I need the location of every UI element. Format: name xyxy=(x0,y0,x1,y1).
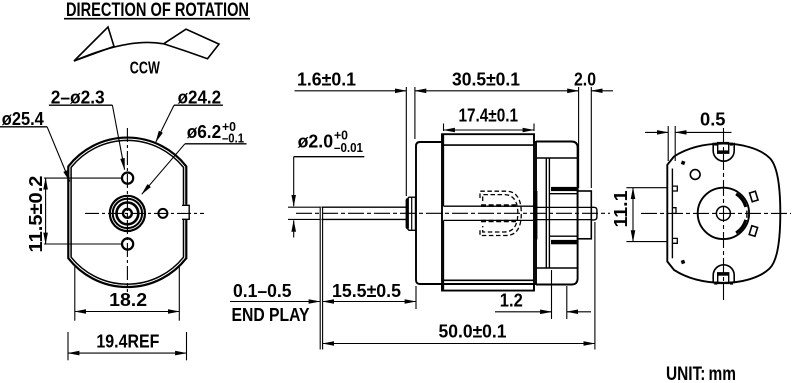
shaft stub xyxy=(591,207,597,220)
side centerline xyxy=(296,212,610,214)
svg-text:50.0±0.1: 50.0±0.1 xyxy=(439,321,507,341)
rear vertical centerline xyxy=(723,128,725,301)
front bearing ring xyxy=(117,203,139,225)
label ø25.4 xyxy=(0,109,70,182)
rear horizontal centerline xyxy=(641,212,791,214)
rear rivet lower-left xyxy=(681,260,686,265)
front view vertical centerline xyxy=(126,128,128,292)
svg-text:CCW: CCW xyxy=(130,57,160,77)
can to cap black joint xyxy=(534,191,538,240)
svg-text:ø25.4: ø25.4 xyxy=(2,109,44,129)
brush block inner lines xyxy=(549,194,577,237)
svg-text:2–ø2.3: 2–ø2.3 xyxy=(51,87,105,107)
commutator arc lower xyxy=(736,220,746,233)
front view inner outline xyxy=(71,140,183,284)
rear inner flat line xyxy=(671,169,673,259)
brush tab lower-right xyxy=(749,226,757,237)
title DIRECTION OF ROTATION xyxy=(64,0,250,21)
label ø2.0 +0 -0.01 xyxy=(294,129,365,238)
svg-text:19.4REF: 19.4REF xyxy=(96,332,159,352)
can tangent lines xyxy=(442,144,534,146)
dimension 18.2 xyxy=(75,267,180,321)
rear shaft hole xyxy=(716,206,730,220)
svg-text:ø24.2: ø24.2 xyxy=(178,87,222,107)
bearing boss xyxy=(406,197,416,230)
svg-text:DIRECTION OF ROTATION: DIRECTION OF ROTATION xyxy=(66,0,249,21)
front view right edge notch xyxy=(182,205,191,220)
front shaft hole xyxy=(123,209,132,218)
svg-text:1.2: 1.2 xyxy=(500,290,523,310)
front pilot hole right xyxy=(158,209,167,218)
end play note 0.1-0.5 END PLAY xyxy=(230,281,320,325)
rear rivet upper-left xyxy=(681,160,686,165)
rear top terminal cup xyxy=(713,143,734,161)
front view outer outline xyxy=(68,138,186,287)
svg-text:1.6±0.1: 1.6±0.1 xyxy=(297,70,356,90)
svg-text:2.0: 2.0 xyxy=(574,70,596,90)
can inner wall lines xyxy=(444,134,535,290)
label ø6.2 +0 -0.1 xyxy=(142,120,247,194)
svg-text:–0.01: –0.01 xyxy=(334,141,363,155)
dimension 15.5±0.5 xyxy=(323,281,416,309)
rear top terminal inner xyxy=(714,143,733,154)
dimension 50.0±0.1 xyxy=(323,222,595,350)
commutator arc upper xyxy=(736,194,746,207)
end cap xyxy=(536,142,578,285)
front mounting hole bottom xyxy=(122,238,133,249)
terminal block xyxy=(578,191,592,239)
front hub ring xyxy=(113,199,142,228)
svg-text:11.1: 11.1 xyxy=(611,191,631,228)
dimension 19.4REF xyxy=(68,332,187,361)
rear flat notches xyxy=(672,186,677,243)
dimension 30.5±0.1 xyxy=(415,70,579,189)
dimension 11.5±0.2 xyxy=(26,176,122,253)
svg-text:UNIT: mm: UNIT: mm xyxy=(666,364,736,383)
brush block bars xyxy=(551,187,578,244)
rear bearing circle xyxy=(698,188,749,239)
front view horizontal centerline xyxy=(85,212,204,214)
svg-text:0.1–0.5: 0.1–0.5 xyxy=(233,281,292,301)
svg-text:30.5±0.1: 30.5±0.1 xyxy=(452,70,520,90)
svg-text:17.4±0.1: 17.4±0.1 xyxy=(459,105,519,125)
shaft through cap xyxy=(537,207,591,219)
rear body outline xyxy=(667,144,780,283)
motor can xyxy=(416,134,536,290)
svg-text:ø2.0: ø2.0 xyxy=(298,132,334,152)
dimension 1.6±0.1 xyxy=(295,70,415,197)
svg-text:11.5±0.2: 11.5±0.2 xyxy=(26,176,46,253)
shaft xyxy=(320,207,406,350)
dimension 11.1 xyxy=(611,188,668,242)
dimension 0.5 xyxy=(645,110,732,162)
armature hidden thick edges xyxy=(481,206,516,221)
front mounting hole top xyxy=(122,173,133,184)
dimension 2.0 xyxy=(574,70,613,189)
svg-text:0.5: 0.5 xyxy=(700,110,726,130)
rear bottom terminal inner xyxy=(714,273,733,285)
dimension 1.2 xyxy=(495,270,591,319)
rear vent hole xyxy=(690,170,700,180)
dimension 17.4±0.1 xyxy=(444,105,535,131)
svg-text:ø6.2: ø6.2 xyxy=(187,122,222,142)
commutator notch xyxy=(746,211,748,218)
label 2-ø2.3 xyxy=(49,87,125,169)
svg-text:18.2: 18.2 xyxy=(109,290,147,310)
label ø24.2 xyxy=(156,87,223,142)
armature hidden outline xyxy=(480,191,521,235)
front hub outer circle xyxy=(110,196,145,231)
CCW curved arrow xyxy=(74,27,219,61)
svg-text:15.5±0.5: 15.5±0.5 xyxy=(332,281,401,301)
shaft dia extension lines xyxy=(288,206,320,208)
rear bottom terminal cup xyxy=(713,265,734,283)
svg-text:END PLAY: END PLAY xyxy=(232,305,310,325)
brush tab upper-right xyxy=(750,191,758,202)
